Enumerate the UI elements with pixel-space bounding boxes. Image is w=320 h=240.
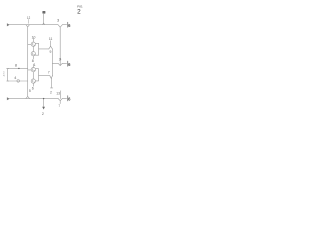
svg-text:8: 8 [15,64,17,68]
svg-text:2: 2 [77,9,81,16]
svg-text:2: 2 [42,112,44,116]
svg-text:4: 4 [14,76,16,80]
svg-text:5: 5 [29,89,31,93]
svg-text:7: 7 [58,104,60,108]
svg-text:10: 10 [32,36,36,40]
svg-text:1: 1 [34,63,36,67]
svg-text:12: 12 [27,16,30,20]
svg-text:14: 14 [59,58,62,62]
svg-text:13: 13 [56,91,60,95]
svg-text:2: 2 [50,90,52,94]
svg-text:11: 11 [49,37,53,41]
svg-text:6: 6 [32,86,34,90]
svg-text:9: 9 [50,50,52,54]
svg-text:7: 7 [48,70,50,74]
